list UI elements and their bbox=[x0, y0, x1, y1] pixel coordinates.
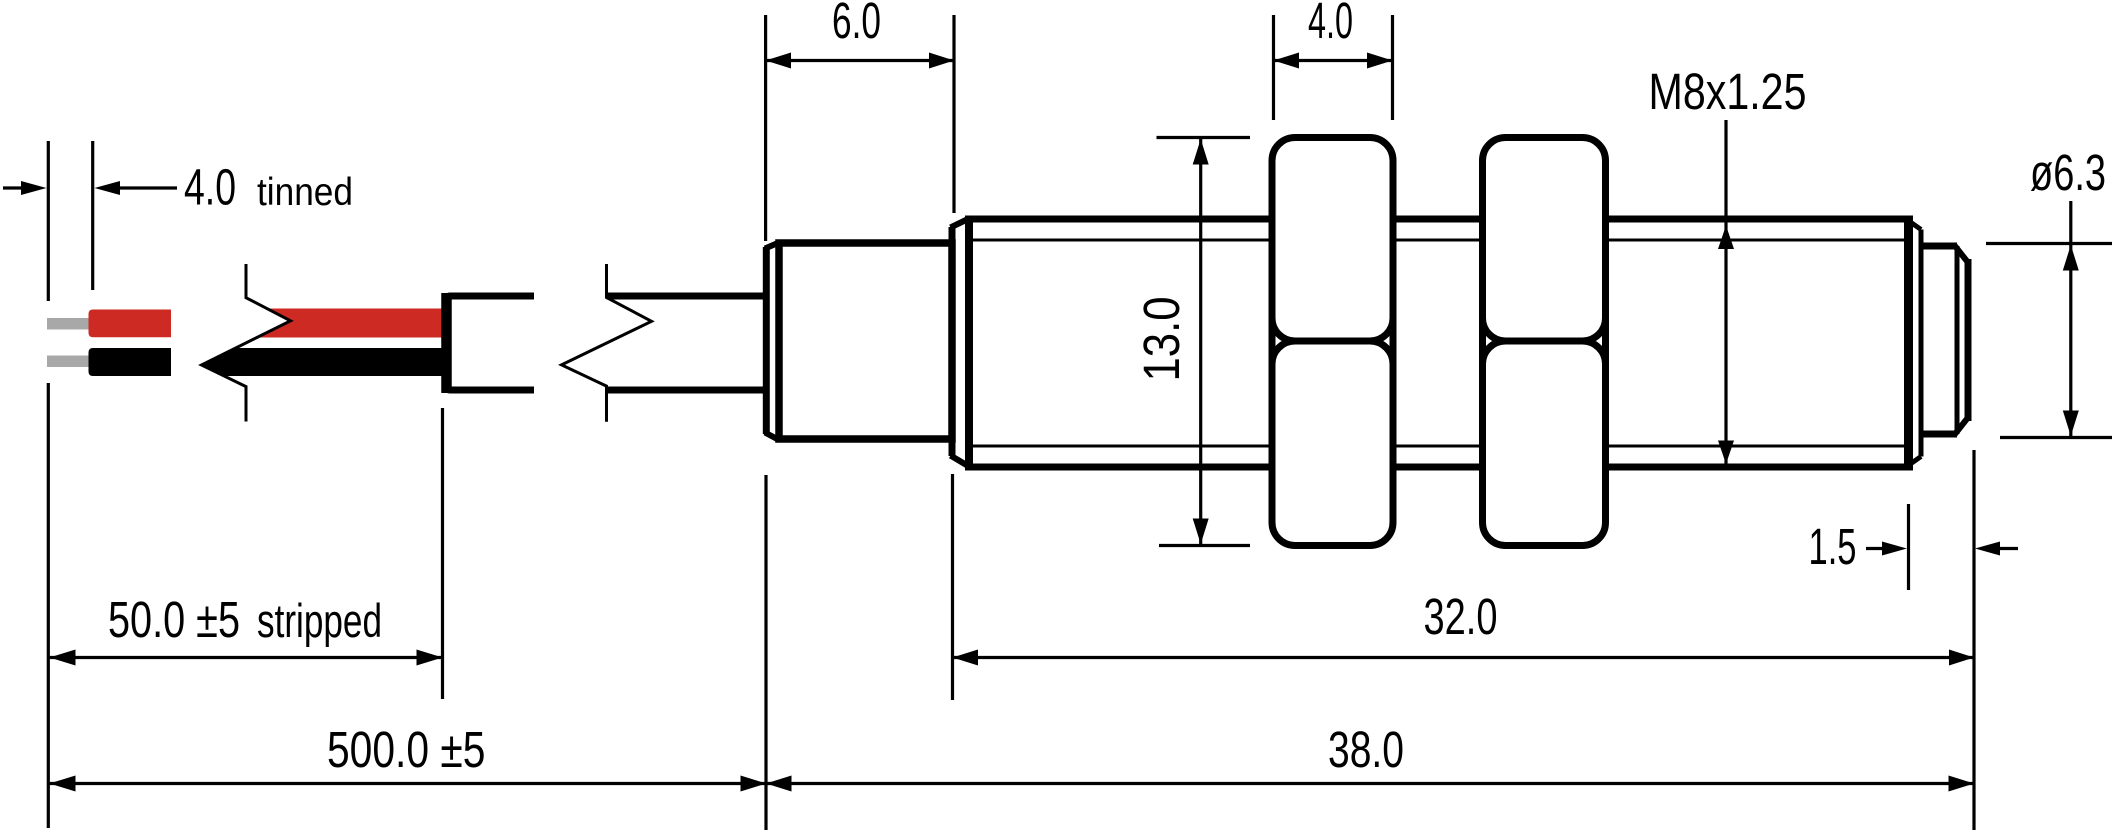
svg-text:ø6.3: ø6.3 bbox=[2030, 144, 2106, 201]
dimension 1.5: right arrow bbox=[1975, 542, 2018, 556]
svg-text:tinned: tinned bbox=[257, 171, 353, 214]
hex nut 2 side edges bbox=[1483, 162, 1606, 521]
svg-text:1.5: 1.5 bbox=[1809, 518, 1857, 575]
wire break line (zigzag) bbox=[202, 264, 291, 422]
cable break line (zigzag) bbox=[562, 264, 652, 422]
dimension M8x1.25: leader line and arrows bbox=[1718, 120, 1734, 464]
sensor rear body bbox=[779, 243, 952, 439]
dimension 6.0: dimension line and arrows bbox=[766, 53, 954, 69]
dimension ø6.3: dimension line and arrows bbox=[2063, 201, 2079, 438]
svg-text:stripped: stripped bbox=[257, 594, 382, 647]
dimension 50.0 ±5: dimension line and arrows bbox=[50, 650, 443, 666]
hex nut 1 top half bbox=[1272, 138, 1393, 342]
dimension 38.0/1.5/32.0: right extension line bbox=[1972, 450, 1975, 830]
red wire segment right of break bbox=[257, 309, 444, 338]
svg-text:38.0: 38.0 bbox=[1328, 721, 1404, 778]
thread minor diameter lines bbox=[970, 240, 1906, 446]
hex nut 1 side edges bbox=[1272, 162, 1393, 521]
sensing tip cylinder bbox=[1921, 246, 1968, 434]
svg-text:32.0: 32.0 bbox=[1424, 588, 1498, 645]
flange ring bbox=[951, 219, 970, 467]
tinned tip of black wire bbox=[47, 356, 91, 368]
label 4.0 (tinned length) bbox=[184, 159, 236, 216]
svg-text:13.0: 13.0 bbox=[1133, 297, 1190, 382]
hex nut 2 top half bbox=[1483, 138, 1606, 342]
black wire segment right of break bbox=[202, 348, 445, 376]
label 32.0 bbox=[1424, 588, 1498, 645]
main threaded body outline bbox=[966, 216, 1909, 471]
dimension 13.0: tick lines bbox=[1157, 138, 1251, 546]
svg-text:6.0: 6.0 bbox=[832, 0, 881, 49]
hex nut 1 bottom half bbox=[1272, 341, 1393, 546]
svg-text:4.0: 4.0 bbox=[184, 159, 236, 216]
label 4.0 (nut width) bbox=[1308, 0, 1353, 49]
tinned tip of red wire bbox=[47, 318, 91, 330]
black wire lead (left piece) bbox=[89, 348, 172, 376]
cable segment to sensor bbox=[607, 296, 765, 390]
dimension 32.0: left extension line bbox=[951, 474, 954, 700]
dimension 38.0: dimension line and arrows bbox=[766, 776, 1974, 792]
label stripped bbox=[257, 594, 382, 647]
dimension 500.0 ±5: dimension line and arrows bbox=[50, 776, 767, 792]
cable sheath left piece bbox=[447, 293, 535, 393]
label ø6.3 bbox=[2030, 144, 2106, 201]
dimension 13.0: dimension line and arrows bbox=[1193, 138, 1209, 546]
dimension 4.0 (nut width): dimension line and arrows bbox=[1274, 53, 1393, 69]
label 38.0 bbox=[1328, 721, 1404, 778]
sensor rear cap strip bbox=[765, 243, 779, 441]
dimension 4.0 (nut width): extension lines bbox=[1274, 15, 1393, 120]
body end chamfer bbox=[1906, 219, 1921, 467]
dimension 32.0: dimension line and arrows bbox=[953, 650, 1975, 666]
red wire lead (left piece) bbox=[89, 310, 172, 338]
label 13.0 (rotated) bbox=[1133, 297, 1190, 382]
svg-text:50.0 ±5: 50.0 ±5 bbox=[108, 591, 240, 648]
svg-text:M8x1.25: M8x1.25 bbox=[1649, 63, 1807, 120]
dimension 1.5: left arrow and extension bbox=[1866, 504, 1909, 590]
dimension 6.0: extension lines bbox=[766, 15, 954, 241]
label 500.0 ±5 bbox=[327, 721, 486, 778]
hex nut 2 bottom half bbox=[1483, 341, 1606, 546]
label 50.0 ±5 bbox=[108, 591, 240, 648]
label 1.5 bbox=[1809, 518, 1857, 575]
svg-text:4.0: 4.0 bbox=[1308, 0, 1353, 49]
dimension 50.0 ±5: extension line bbox=[441, 408, 444, 699]
dimension 4.0 tinned: extension line A bbox=[47, 141, 50, 828]
label M8x1.25 bbox=[1649, 63, 1807, 120]
label 6.0 bbox=[832, 0, 881, 49]
dimension 4.0 tinned: extension line B bbox=[91, 141, 94, 290]
label tinned bbox=[257, 171, 353, 214]
svg-text:500.0 ±5: 500.0 ±5 bbox=[327, 721, 486, 778]
dimension ø6.3: tick lines bbox=[1986, 244, 2112, 438]
dimension 4.0 tinned: dimension line and arrows bbox=[3, 181, 177, 195]
dimension 500.0 ±5: boundary extension line bbox=[764, 475, 767, 830]
